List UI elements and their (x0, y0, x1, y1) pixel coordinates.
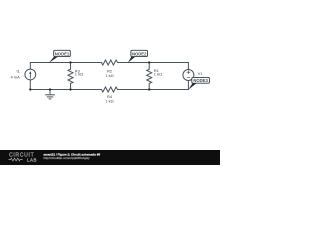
resistor R2 (102, 60, 118, 65)
node NODE2 callout (128, 50, 148, 62)
svg-text:1 kΩ: 1 kΩ (105, 73, 113, 78)
node NODE3 callout (188, 77, 209, 89)
wire bottom rail right segment (118, 89, 189, 91)
wire I1 bottom lead (29, 80, 31, 90)
wire V1 bottom lead (187, 81, 189, 90)
wire R1 top lead (148, 63, 150, 70)
junction dot R3 top (69, 61, 71, 63)
current source I1 (25, 69, 36, 80)
wire V1 top lead (187, 63, 189, 70)
svg-text:4 mA: 4 mA (10, 75, 20, 80)
node NODE1 callout (49, 50, 70, 63)
junction dot R1 bottom (148, 88, 150, 90)
resistor R1 (147, 69, 152, 83)
junction dot R3 bottom (69, 88, 71, 90)
resistor R3 (68, 69, 73, 83)
junction dot ground (49, 88, 51, 90)
wire top rail right segment (118, 62, 189, 64)
svg-text:V1: V1 (198, 71, 204, 76)
svg-text:1 kΩ: 1 kΩ (75, 72, 83, 77)
wire top rail left segment (30, 62, 101, 64)
footer bar (0, 150, 220, 165)
ground stem (49, 90, 51, 95)
svg-text:NODE1: NODE1 (55, 51, 70, 56)
svg-text:LAB: LAB (27, 157, 37, 162)
svg-text:NODE2: NODE2 (132, 51, 147, 56)
svg-text:http://circuitlab.com/c/qq3965: http://circuitlab.com/c/qq3965uhgaly (44, 156, 91, 160)
ground (45, 95, 55, 99)
logo resistor zigzag (9, 158, 23, 161)
wire R3 top lead (70, 63, 72, 70)
svg-text:NODE3: NODE3 (193, 78, 208, 83)
wire bottom rail left segment (30, 89, 101, 91)
wire R3 bottom lead (70, 84, 72, 90)
resistor R4 (102, 87, 118, 92)
wire I1 top lead (29, 63, 31, 70)
voltage source V1 (183, 70, 194, 81)
junction dot R1 top (148, 61, 150, 63)
svg-text:1 kΩ: 1 kΩ (154, 71, 162, 76)
junction dot bottom-left corner (29, 88, 31, 90)
svg-text:1 kΩ: 1 kΩ (105, 98, 113, 103)
wire R1 bottom lead (148, 84, 150, 90)
svg-text:I1: I1 (16, 69, 20, 74)
